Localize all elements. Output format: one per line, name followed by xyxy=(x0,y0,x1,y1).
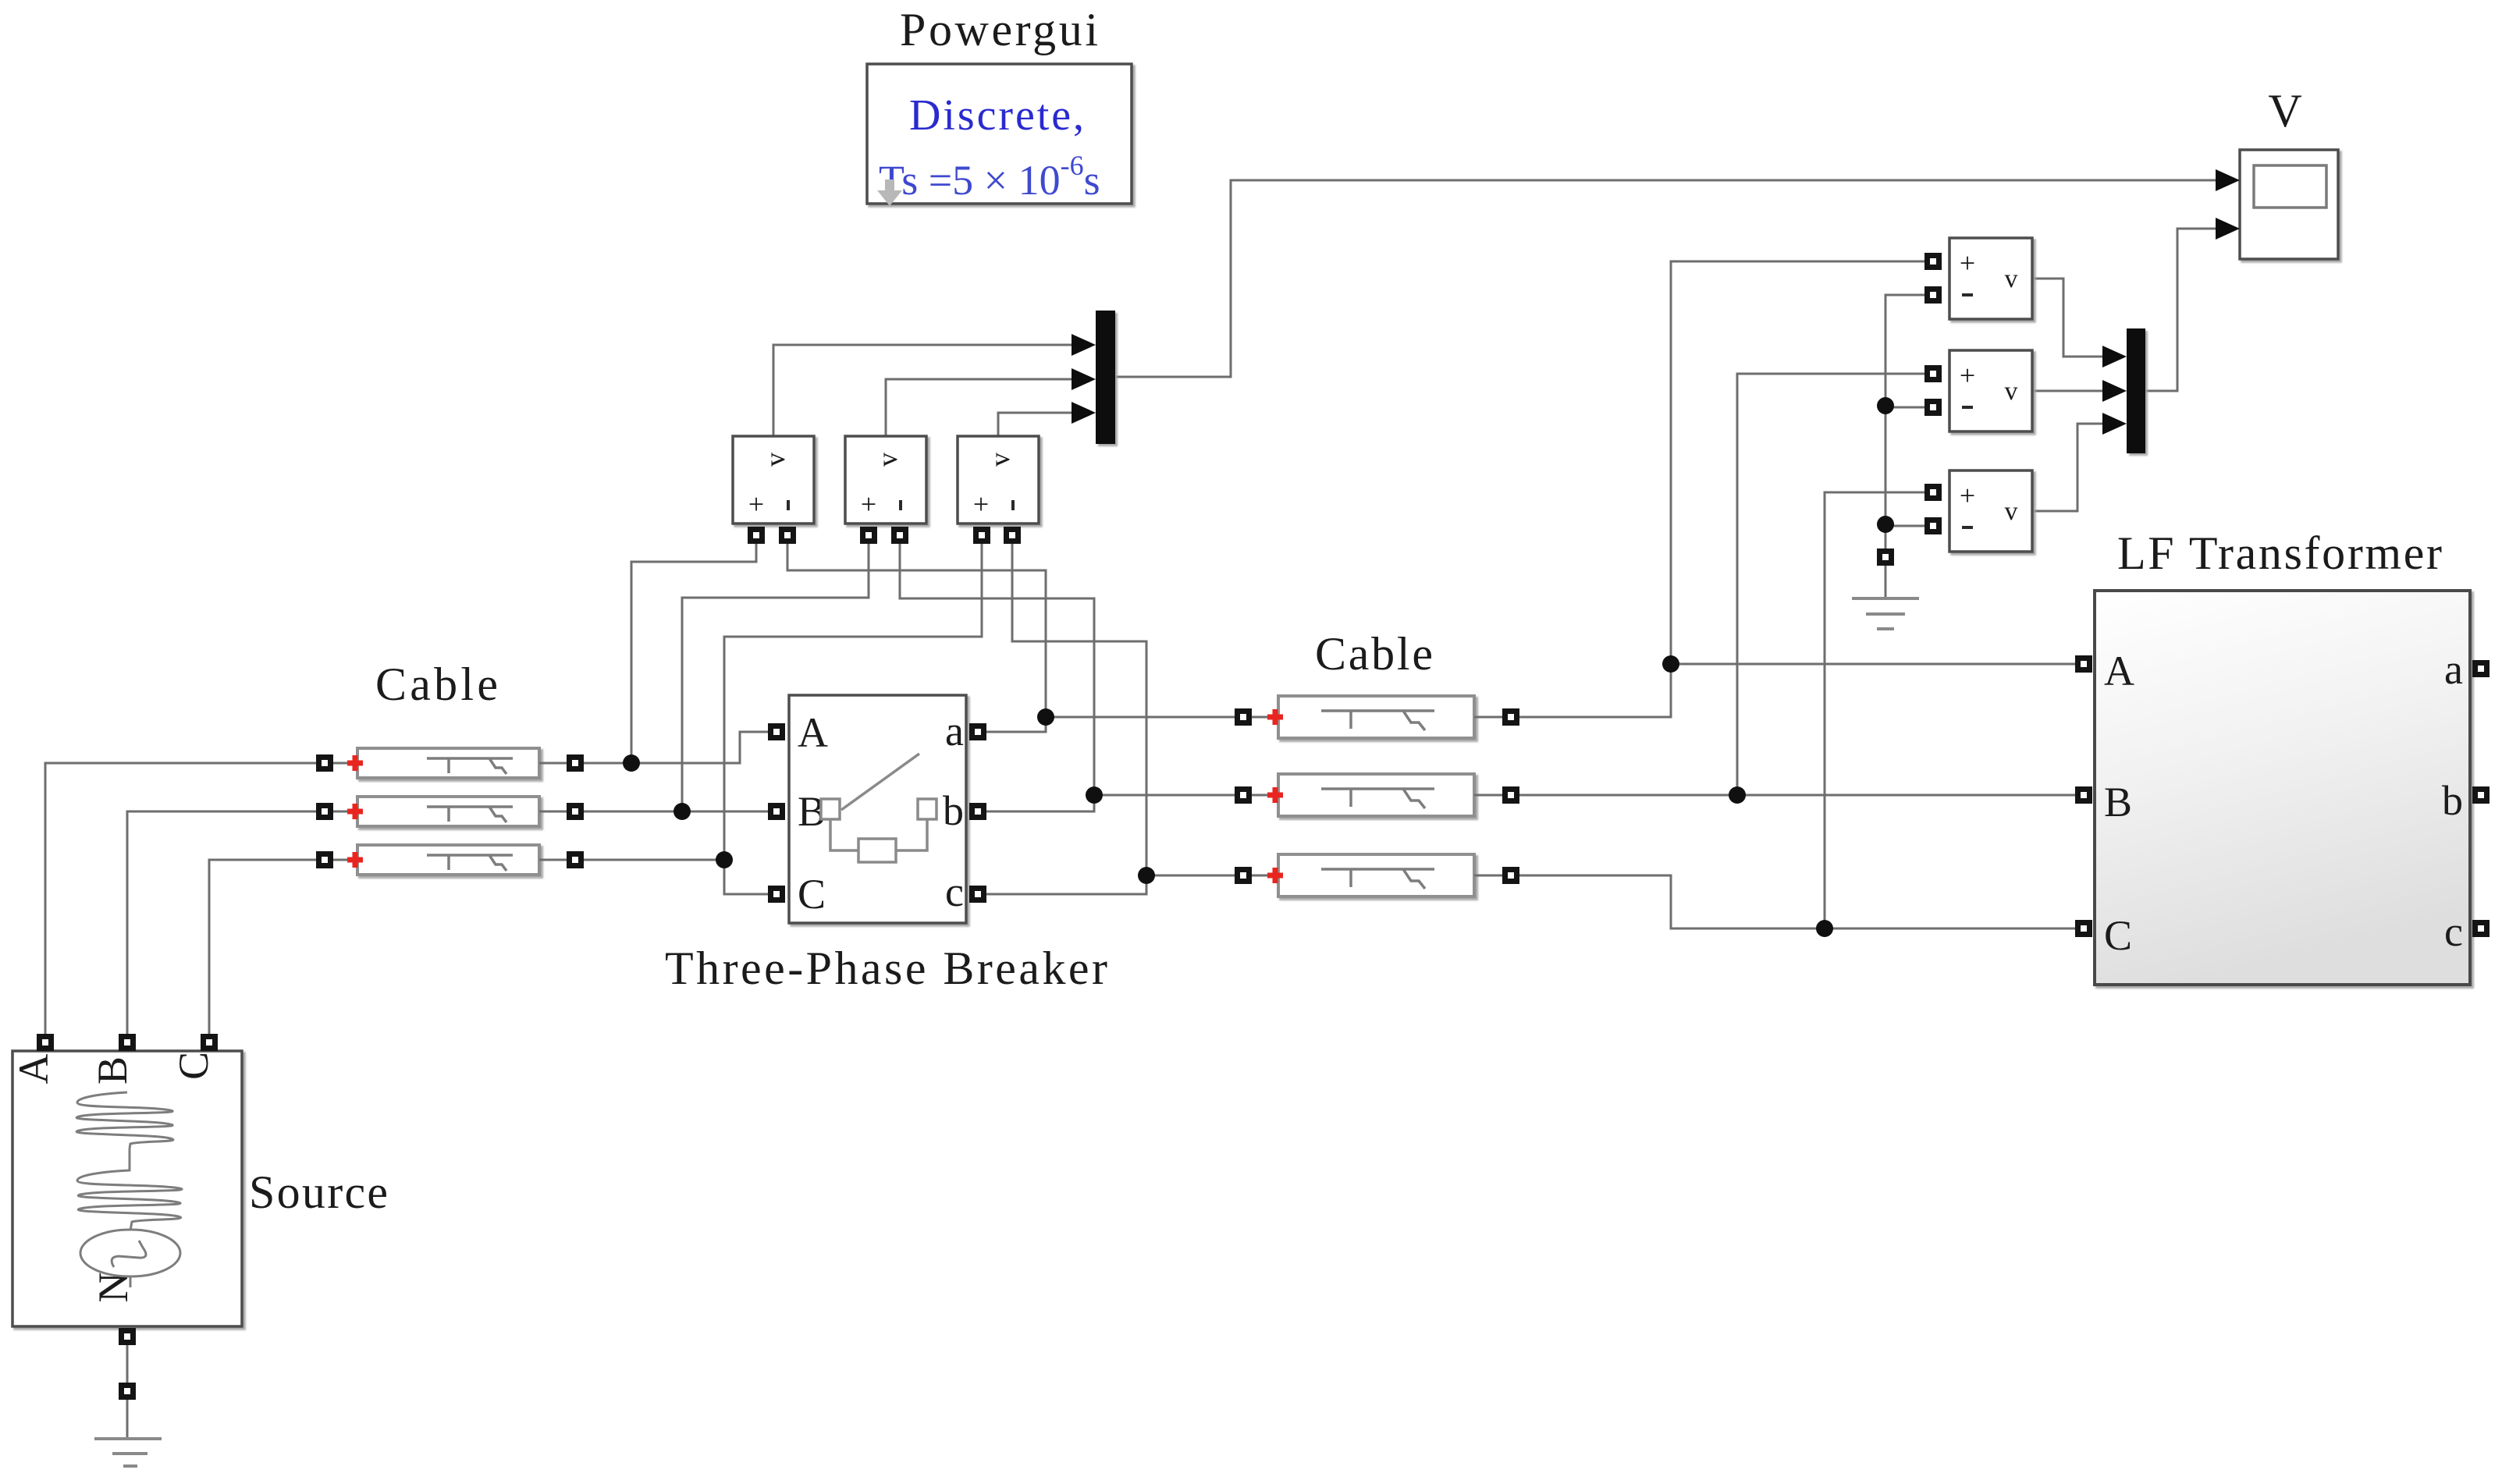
wire Cable5 output to LF Transformer B input xyxy=(1519,794,2075,797)
wire source N to Ground2 port xyxy=(126,1345,129,1383)
svg-text:v: v xyxy=(984,453,1015,467)
Cable4 input port xyxy=(1235,708,1252,726)
wire Cable4 output to node A2 xyxy=(1519,664,1671,717)
wire node B2 up to VM5 plus port xyxy=(1737,374,1924,795)
svg-text:Source: Source xyxy=(249,1166,388,1218)
mux Mux2 arrow 2 xyxy=(2102,380,2127,402)
svg-text:+: + xyxy=(1960,360,1975,391)
breaker B input port xyxy=(768,803,785,820)
svg-text:+: + xyxy=(1960,247,1975,279)
svg-text:+: + xyxy=(861,488,876,520)
VM2 minus port xyxy=(891,527,908,544)
breaker A input port xyxy=(768,723,785,740)
wire VM6 minus port to ground bus xyxy=(1885,525,1924,527)
cable Cable4 xyxy=(1252,696,1502,738)
Cable1 plus mark xyxy=(347,755,363,771)
mux Mux1 xyxy=(1096,311,1115,444)
svg-text:v: v xyxy=(872,453,903,467)
Cable6 plus mark xyxy=(1267,868,1283,883)
voltage measurement VM5 xyxy=(1949,350,2032,431)
svg-text:a: a xyxy=(945,708,964,754)
wire node a1 to Cable4 input xyxy=(1046,716,1235,719)
svg-text:A: A xyxy=(2104,648,2134,694)
wire Cable3 output to node C1 xyxy=(584,859,724,861)
Cable3 output port xyxy=(567,851,584,868)
wire node A1 up to VM1 plus port xyxy=(631,527,756,763)
wire Mux2 output to Scope input 2 xyxy=(2145,229,2218,391)
svg-text:+: + xyxy=(748,488,764,520)
breaker a output port xyxy=(969,723,986,740)
Cable2 output port xyxy=(567,803,584,820)
Cable5 output port xyxy=(1502,786,1519,804)
wire node B1 up to VM2 plus port xyxy=(682,527,869,811)
wire breaker c output to node c1 xyxy=(978,875,1146,894)
LF C input port xyxy=(2075,920,2092,937)
wire ground port to Ground1 symbol xyxy=(1885,566,1887,598)
wire VM1 output to Mux1 input 1 xyxy=(773,345,1074,436)
LF b output port xyxy=(2472,786,2490,804)
wire source A to Cable1 input xyxy=(45,763,316,1038)
voltage measurement VM3 (rotated) xyxy=(958,436,1039,524)
wire Cable2 output to node B1 xyxy=(584,811,682,813)
ground port G1 xyxy=(1877,549,1894,566)
svg-text:v: v xyxy=(2005,377,2018,406)
breaker b output port xyxy=(969,803,986,820)
svg-text:b: b xyxy=(2442,777,2463,824)
wire Mux1 output to Scope input 1 xyxy=(1115,180,2218,377)
node B1 xyxy=(673,803,691,820)
VM3 minus port xyxy=(1004,527,1021,544)
cable Cable3 xyxy=(333,845,567,875)
svg-text:B: B xyxy=(89,1056,136,1085)
Cable3 input port xyxy=(316,851,333,868)
node b1 xyxy=(1086,786,1103,804)
scope input arrow 2 xyxy=(2216,218,2240,240)
cable Cable5 xyxy=(1252,774,1502,816)
voltage measurement VM1 (rotated) xyxy=(733,436,814,524)
LF a output port xyxy=(2472,660,2490,677)
svg-text:+: + xyxy=(973,488,989,520)
LF A input port xyxy=(2075,655,2092,673)
LF transformer block xyxy=(2095,591,2470,985)
svg-text:v: v xyxy=(759,453,791,467)
Cable2 plus mark xyxy=(347,804,363,819)
wire VM2 output to Mux1 input 2 xyxy=(886,379,1074,436)
svg-text:a: a xyxy=(2444,646,2463,693)
wire node C1 up to VM3 plus port xyxy=(724,527,982,860)
svg-text:Three-Phase Breaker: Three-Phase Breaker xyxy=(665,943,1107,994)
wire VM1 minus port to node a1 xyxy=(787,527,1046,717)
VM2 plus port xyxy=(860,527,877,544)
source C port xyxy=(201,1034,218,1051)
voltage measurement VM4 xyxy=(1949,238,2032,319)
source B port xyxy=(119,1034,136,1051)
wire Cable1 output to node A1 xyxy=(584,762,631,765)
VM4 plus port xyxy=(1924,253,1942,270)
wire node b1 to Cable5 input xyxy=(1094,794,1235,797)
wire node A2 up to VM4 plus port xyxy=(1671,261,1924,664)
svg-text:c: c xyxy=(945,868,964,915)
Cable6 input port xyxy=(1235,867,1252,884)
voltage measurement VM2 (rotated) xyxy=(845,436,926,524)
powergui block xyxy=(867,64,1132,206)
wire node A1 to breaker A input xyxy=(631,732,768,763)
voltage measurement VM6 xyxy=(1949,470,2032,552)
cable Cable1 xyxy=(333,748,567,778)
mux Mux1 arrow 1 xyxy=(1072,334,1096,356)
wire node A2 to LF Transformer A input xyxy=(1671,663,2075,666)
VM1 plus port xyxy=(748,527,765,544)
wire VM3 output to Mux1 input 3 xyxy=(998,413,1074,436)
node A1 xyxy=(623,754,640,772)
wire VM3 minus port to node c1 xyxy=(1012,527,1146,875)
svg-text:A: A xyxy=(10,1054,57,1085)
Cable5 input port xyxy=(1235,786,1252,804)
node A2 xyxy=(1662,655,1679,673)
svg-text:Cable: Cable xyxy=(1315,628,1433,680)
wire VM5 minus port to ground bus xyxy=(1885,407,1924,409)
wire source C to Cable3 input xyxy=(209,860,316,1038)
mux Mux1 arrow 2 xyxy=(1072,368,1096,390)
node B2 xyxy=(1729,786,1746,804)
svg-text:v: v xyxy=(2005,497,2018,526)
Cable3 plus mark xyxy=(347,852,363,868)
VM5 plus port xyxy=(1924,365,1942,382)
wire VM4 minus port to ground bus xyxy=(1885,295,1924,549)
svg-text:Powergui: Powergui xyxy=(900,4,1098,55)
breaker C input port xyxy=(768,886,785,903)
VM3 plus port xyxy=(973,527,990,544)
VM4 minus port xyxy=(1924,286,1942,304)
wire breaker a output to node a1 xyxy=(978,717,1046,732)
wire VM5 output to Mux2 input 2 xyxy=(2032,390,2105,392)
svg-text:b: b xyxy=(943,787,964,834)
svg-text:A: A xyxy=(798,709,828,756)
Cable4 output port xyxy=(1502,708,1519,726)
svg-text:c: c xyxy=(2444,908,2463,955)
svg-text:v: v xyxy=(2005,264,2018,293)
wire VM4 output to Mux2 input 1 xyxy=(2032,279,2105,357)
VM5 minus port xyxy=(1924,399,1942,416)
wire VM2 minus port to node b1 xyxy=(900,527,1094,795)
Cable1 output port xyxy=(567,754,584,772)
svg-text:Cable: Cable xyxy=(375,659,498,710)
svg-text:LF Transformer: LF Transformer xyxy=(2117,527,2442,579)
mux Mux2 arrow 1 xyxy=(2102,346,2127,367)
source N port xyxy=(119,1328,136,1345)
wire node c1 to Cable6 input xyxy=(1146,875,1235,877)
VM1 minus port xyxy=(779,527,796,544)
node G1 xyxy=(1877,397,1894,414)
Ground2 port xyxy=(119,1383,136,1400)
svg-text:C: C xyxy=(2104,912,2132,959)
Cable5 plus mark xyxy=(1267,787,1283,803)
node a1 xyxy=(1037,708,1054,726)
LF B input port xyxy=(2075,786,2092,804)
Cable6 output port xyxy=(1502,867,1519,884)
Cable2 input port xyxy=(316,803,333,820)
scope block xyxy=(2240,150,2338,259)
wire breaker b output to node b1 xyxy=(978,795,1094,811)
source block xyxy=(10,1051,242,1326)
wire source B to Cable2 input xyxy=(127,811,316,1038)
cable Cable6 xyxy=(1252,854,1502,896)
node G2 xyxy=(1877,516,1894,533)
mux Mux1 arrow 3 xyxy=(1072,402,1096,424)
wire node C1 to breaker C input xyxy=(724,860,768,894)
LF c output port xyxy=(2472,920,2490,937)
wire VM6 output to Mux2 input 3 xyxy=(2032,424,2105,511)
VM6 plus port xyxy=(1924,484,1942,501)
three-phase breaker block xyxy=(789,695,966,923)
wire node C2 up to VM6 plus port xyxy=(1825,492,1924,928)
breaker c output port xyxy=(969,886,986,903)
scope input arrow 1 xyxy=(2216,169,2240,191)
node C2 xyxy=(1816,920,1833,937)
cable Cable2 xyxy=(333,797,567,826)
svg-text:C: C xyxy=(170,1052,217,1080)
ground Ground1 xyxy=(1852,598,1919,629)
svg-text:+: + xyxy=(1960,480,1975,511)
node C1 xyxy=(716,851,733,868)
mux Mux2 xyxy=(2127,328,2145,453)
mux Mux2 arrow 3 xyxy=(2102,413,2127,435)
ground Ground2 xyxy=(94,1439,162,1466)
Cable4 plus mark xyxy=(1267,709,1283,725)
wire Ground2 port to symbol xyxy=(126,1400,129,1439)
Cable1 input port xyxy=(316,754,333,772)
svg-text:V: V xyxy=(2268,85,2301,137)
source A port xyxy=(37,1034,54,1051)
wire node B1 to breaker B input xyxy=(682,811,768,813)
node c1 xyxy=(1138,867,1155,884)
svg-text:B: B xyxy=(2104,779,2132,825)
VM6 minus port xyxy=(1924,517,1942,534)
wire Cable6 output to LF Transformer C input xyxy=(1519,875,2075,928)
svg-text:C: C xyxy=(798,871,826,918)
